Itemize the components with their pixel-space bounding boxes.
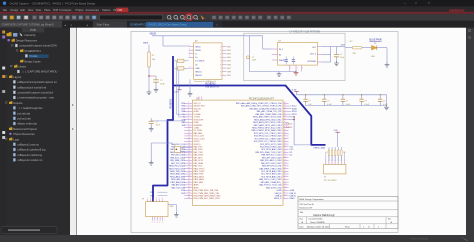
svg-text:VDD_IN: VDD_IN xyxy=(194,108,202,110)
resistor R3 pullup xyxy=(328,147,330,150)
svg-text:RC9_RP25_OC1_CTED7_CN21: RC9_RP25_OC1_CTED7_CN21 xyxy=(254,133,282,135)
ground xyxy=(154,88,159,93)
svg-text:Library: Library xyxy=(18,65,27,69)
svg-text:42: 42 xyxy=(284,107,286,109)
svg-text:RG9_PWM_BLU_TMR4_CN11: RG9_PWM_BLU_TMR4_CN11 xyxy=(194,198,220,200)
svg-text:RA8_OSCO_CLKO_CN29: RA8_OSCO_CLKO_CN29 xyxy=(259,178,281,181)
svg-text:D+: D+ xyxy=(183,114,185,116)
pin stub xyxy=(189,67,194,69)
svg-text:RB3_AN5_C1INA_RP3_: RB3_AN5_C1INA_RP3_ xyxy=(261,181,283,184)
svg-text:40: 40 xyxy=(284,113,286,115)
ground xyxy=(147,90,152,95)
svg-text:pcb tab.dat: pcb tab.dat xyxy=(17,111,30,115)
svg-text:SOSCI: SOSCI xyxy=(194,141,200,143)
svg-text:Start Page: Start Page xyxy=(97,23,110,27)
svg-text:30: 30 xyxy=(188,181,190,183)
svg-text:RB13_AN13_RP13_SDO2_CN13: RB13_AN13_RP13_SDO2_CN13 xyxy=(253,121,281,124)
svg-text:RP24: RP24 xyxy=(292,111,297,113)
svg-text:RA4_SOSCO_T1CK_CN0: RA4_SOSCO_T1CK_CN0 xyxy=(259,184,281,187)
svg-text:Document Number: Document Number xyxy=(309,218,324,221)
svg-text:nUSB: nUSB xyxy=(277,190,283,192)
svg-text:PGED3: PGED3 xyxy=(286,127,292,129)
svg-text:SI Analysis: SI Analysis xyxy=(59,9,72,12)
resistor R7 pullup xyxy=(340,147,342,150)
wire crystal to OSC2 xyxy=(181,150,193,152)
svg-text:3.3V: 3.3V xyxy=(334,130,339,132)
svg-text:cs8layout1\composite8 capture: cs8layout1\composite8 capture tut xyxy=(17,80,57,84)
svg-text:3: 3 xyxy=(220,54,221,56)
pin stub xyxy=(189,56,194,58)
svg-text:composite8 capture tutorial DS: composite8 capture tutorial DSN xyxy=(19,44,56,48)
junction xyxy=(293,119,294,120)
ground xyxy=(188,92,193,97)
svg-text:Hierarchy: Hierarchy xyxy=(25,33,37,37)
svg-text:27: 27 xyxy=(188,173,190,175)
svg-text:RB11_PGD2: RB11_PGD2 xyxy=(194,171,205,173)
pin stub U2 left xyxy=(272,48,278,50)
svg-text:Capture Walkthrough: Capture Walkthrough xyxy=(313,214,335,217)
svg-text:C?: C? xyxy=(252,57,254,59)
pin stub U2 right xyxy=(317,61,322,63)
svg-text:PCB: PCB xyxy=(30,28,36,32)
wire right end down xyxy=(386,95,388,106)
svg-text:View: View xyxy=(28,9,34,12)
gray box LT VREGOR USB PATTERN xyxy=(244,33,345,80)
svg-text:cs8layout\pcb tutorial.brd: cs8layout\pcb tutorial.brd xyxy=(17,85,46,89)
svg-text:44: 44 xyxy=(284,102,286,104)
svg-text:7: 7 xyxy=(220,68,221,70)
svg-text:MH5: MH5 xyxy=(227,61,231,63)
svg-text:RB13_AN11: RB13_AN11 xyxy=(194,175,204,178)
svg-text:RB11_PGD2_LED2: RB11_PGD2_LED2 xyxy=(169,168,185,170)
svg-text:USB MICRO B: USB MICRO B xyxy=(205,87,219,89)
svg-text:3.3V: 3.3V xyxy=(292,89,297,91)
svg-text:3: 3 xyxy=(189,52,190,54)
svg-text:PAGE1: PAGE1 xyxy=(29,54,38,58)
svg-text:Edit: Edit xyxy=(21,9,26,12)
capacitor C8 xyxy=(379,95,381,99)
J4 pin stub bottom xyxy=(159,217,161,221)
title block xyxy=(298,196,398,228)
wire to crystal xyxy=(151,142,172,144)
ground xyxy=(149,161,154,166)
svg-text:Design Cache: Design Cache xyxy=(24,59,41,63)
svg-text:Size: Size xyxy=(300,219,303,221)
capacitor C10 plate xyxy=(149,120,154,122)
svg-text:19: 19 xyxy=(284,170,286,172)
svg-text:RA9_AN7_LED5: RA9_AN7_LED5 xyxy=(172,184,186,187)
svg-text:RB12_AN12_RP12_nSS2_CN14: RB12_AN12_RP12_nSS2_CN14 xyxy=(254,124,282,127)
svg-text:2: 2 xyxy=(220,50,221,52)
svg-text:C?: C? xyxy=(308,101,310,103)
svg-text:Rochester, NY: Rochester, NY xyxy=(300,206,314,209)
svg-text:4: 4 xyxy=(189,56,190,58)
svg-text:Design Resources: Design Resources xyxy=(16,39,38,43)
svg-text:RB8_RP8_SCL1_CN22: RB8_RP8_SCL1_CN22 xyxy=(261,155,281,157)
pin stub U2 right xyxy=(317,54,322,56)
ground xyxy=(384,105,389,110)
svg-text:RB10_PGED2_RP10_SDA2_CN16: RB10_PGED2_RP10_SDA2_CN16 xyxy=(252,129,282,132)
svg-text:8: 8 xyxy=(220,71,221,73)
svg-text:RB1_AN3_C1INC_RP1_CTED12_PGEC3: RB1_AN3_C1INC_RP1_CTED12_PGEC3_CN3 xyxy=(241,105,281,108)
svg-text:USB_ID: USB_ID xyxy=(290,193,297,195)
svg-text:nMCLR_RST: nMCLR_RST xyxy=(194,106,206,108)
pin stub xyxy=(189,46,194,48)
svg-text:MH6: MH6 xyxy=(227,64,231,66)
svg-text:RB8_SCL1: RB8_SCL1 xyxy=(194,160,203,162)
svg-text:22: 22 xyxy=(188,159,190,161)
svg-text:27: 27 xyxy=(284,148,286,150)
svg-text:RC5_RP21_U1TX_CN26: RC5_RP21_U1TX_CN26 xyxy=(260,144,281,146)
svg-text:10uF: 10uF xyxy=(160,84,165,86)
svg-text:26: 26 xyxy=(284,151,286,153)
wire VBUS drop inside box xyxy=(249,36,251,72)
J4 pin stub bottom xyxy=(162,217,164,221)
svg-text:AVDD: AVDD xyxy=(194,186,200,189)
svg-text:RB13_AN11_SW1: RB13_AN11_SW1 xyxy=(170,173,185,176)
svg-text:RC_RXD1: RC_RXD1 xyxy=(194,130,203,132)
svg-text:□: □ xyxy=(415,1,417,5)
svg-text:2: 2 xyxy=(189,48,190,50)
wire to header pin xyxy=(343,152,345,162)
wire R1 chain xyxy=(148,45,150,91)
resistor R1 10k xyxy=(148,52,150,67)
svg-text:SOSCO: SOSCO xyxy=(194,144,201,146)
capacitor plate xyxy=(285,59,288,61)
svg-text:LT VREGOR / USB PATTERN: LT VREGOR / USB PATTERN xyxy=(290,31,321,34)
wire to header pin xyxy=(337,152,339,162)
svg-text:nUSB: nUSB xyxy=(194,111,200,113)
svg-text:RB5_RP5_PGD1_CN27: RB5_RP5_PGD1_CN27 xyxy=(261,163,282,165)
svg-text:2: 2 xyxy=(328,160,329,162)
svg-text:×: × xyxy=(71,23,73,27)
svg-text:RB7_RP7_INT0_CN23: RB7_RP7_INT0_CN23 xyxy=(262,157,281,159)
svg-text:7: 7 xyxy=(344,160,345,162)
svg-text:Rev: Rev xyxy=(388,219,391,221)
svg-text:RB10_PGC2: RB10_PGC2 xyxy=(194,168,205,170)
svg-text:RA7_TDO_CN20: RA7_TDO_CN20 xyxy=(171,162,185,165)
MCU top pin stub xyxy=(198,97,200,101)
svg-text:–: – xyxy=(404,1,406,5)
svg-text:24: 24 xyxy=(188,165,190,167)
svg-text:1: 1 xyxy=(220,46,221,48)
capacitor C7 xyxy=(361,95,363,99)
wire D- to MCU xyxy=(177,61,186,114)
svg-text:VBUS: VBUS xyxy=(143,42,149,44)
svg-text:PIC24FJ128GA204-I/PT: PIC24FJ128GA204-I/PT xyxy=(249,97,274,100)
svg-text:RA10_TMS_CN28: RA10_TMS_CN28 xyxy=(170,170,185,173)
svg-text:Tools: Tools xyxy=(35,9,42,12)
svg-text:File: File xyxy=(3,9,8,12)
svg-text:Design: Design xyxy=(10,9,18,12)
wire VBUS horizontal xyxy=(152,35,263,37)
wire J1 GND down xyxy=(189,79,191,92)
svg-text:PGEC3: PGEC3 xyxy=(286,123,292,125)
svg-text:1: 1 xyxy=(152,222,153,224)
svg-text:6: 6 xyxy=(162,198,163,200)
svg-text:RC2_RP18_AN8_CN16: RC2_RP18_AN8_CN16 xyxy=(261,170,281,173)
svg-text:RG6_PWM_BLKC_INB_CN8: RG6_PWM_BLKC_INB_CN8 xyxy=(194,190,219,192)
svg-text:OUT_2: OUT_2 xyxy=(310,54,316,56)
svg-text:11: 11 xyxy=(188,129,190,131)
svg-text:28: 28 xyxy=(188,175,190,177)
capacitor C3 plate xyxy=(334,54,339,56)
svg-text:RA9_VREF_CTMU_CN30: RA9_VREF_CTMU_CN30 xyxy=(259,167,281,170)
svg-text:12: 12 xyxy=(284,189,286,191)
svg-text:Outputs: Outputs xyxy=(13,101,23,105)
svg-text:14: 14 xyxy=(284,184,286,186)
svg-text:allegro netlist.dat: allegro netlist.dat xyxy=(17,122,37,126)
J4 pin stub top xyxy=(156,199,158,202)
svg-text:PIC IO PMOD: PIC IO PMOD xyxy=(324,180,337,182)
svg-text:RC7_RP23_IC1_CTED9_CN19: RC7_RP23_IC1_CTED9_CN19 xyxy=(255,138,282,140)
svg-text:MH2: MH2 xyxy=(227,50,231,52)
svg-text:pcb pcb.dat: pcb pcb.dat xyxy=(17,117,31,121)
svg-text:RB5_PGD: RB5_PGD xyxy=(194,149,203,151)
svg-text:RC3_RP19_AN6_CN28: RC3_RP19_AN6_CN28 xyxy=(261,148,281,151)
svg-text:D+/USB: D+/USB xyxy=(194,114,202,116)
svg-text:RA2_TXD2: RA2_TXD2 xyxy=(194,151,204,154)
svg-text:16: 16 xyxy=(188,143,190,145)
svg-text:OC1: OC1 xyxy=(290,147,294,149)
regulator U2 xyxy=(278,42,318,65)
svg-text:LED: LED xyxy=(371,56,375,58)
stub PGD xyxy=(158,191,168,193)
wire gnd rail of cap row xyxy=(306,105,387,107)
svg-text:Y?: Y? xyxy=(174,144,176,146)
svg-text:Accessories: Accessories xyxy=(86,9,100,12)
svg-text:9: 9 xyxy=(220,75,221,77)
wire to R2 xyxy=(345,47,352,49)
J4 pin stub top xyxy=(158,199,160,202)
svg-text:MH4: MH4 xyxy=(227,57,231,59)
svg-text:SOSC/CPS: SOSC/CPS xyxy=(194,119,205,121)
svg-text:RA0_AN0_C2INB_VREF_CN0: RA0_AN0_C2INB_VREF_CN0 xyxy=(256,113,282,116)
svg-text:29: 29 xyxy=(284,143,286,145)
svg-text:SCL2: SCL2 xyxy=(292,106,297,108)
svg-text:RG8_PWM_GRN_TMR3_CN10: RG8_PWM_GRN_TMR3_CN10 xyxy=(194,195,221,197)
resistor R4 pullup xyxy=(331,147,333,150)
svg-text:cs8layout1.gearbox8.log: cs8layout1.gearbox8.log xyxy=(17,148,46,152)
svg-text:COMPOSITE CAPTURE TUTORIAL.opj: COMPOSITE CAPTURE TUTORIAL.opj (Read-O xyxy=(2,23,55,26)
svg-text:22: 22 xyxy=(284,162,286,164)
svg-text:C?: C? xyxy=(327,101,329,103)
svg-text:RB15_AN15_REFO_SCK2_CN11: RB15_AN15_REFO_SCK2_CN11 xyxy=(253,116,282,119)
wire to C1 xyxy=(149,75,156,77)
svg-text:Place: Place xyxy=(44,9,51,12)
crystal Y1 xyxy=(175,146,181,152)
svg-text:20: 20 xyxy=(284,167,286,169)
svg-text:OC2: OC2 xyxy=(290,149,294,151)
svg-text:Bxxx CLKHBTA: Bxxx CLKHBTA xyxy=(311,221,326,224)
wire bus to FB2 xyxy=(173,67,177,69)
capacitor C5 xyxy=(323,95,325,99)
resistor R2 330 xyxy=(353,47,362,49)
svg-text:cs8layout1.netlink.log: cs8layout1.netlink.log xyxy=(17,153,42,157)
power symbol 5.0V xyxy=(178,89,182,91)
svg-text:5: 5 xyxy=(338,160,339,162)
svg-text:26: 26 xyxy=(188,170,190,172)
wire to header pin xyxy=(331,152,333,162)
svg-text:Connector for USB Micro B: Connector for USB Micro B xyxy=(194,80,216,83)
wire 3.3V rail xyxy=(297,94,387,96)
svg-text:×: × xyxy=(216,23,218,27)
svg-text:RB9_RP9_SDA1_T1CK_CN27: RB9_RP9_SDA1_T1CK_CN27 xyxy=(255,151,281,154)
svg-text:30: 30 xyxy=(284,140,286,142)
thick bus horizontal + diagonal to PMOD xyxy=(173,86,326,145)
wire to C3 xyxy=(336,47,338,55)
J4 pin stub top xyxy=(147,199,149,202)
svg-text:OSC2_CLKO: OSC2_CLKO xyxy=(194,138,206,140)
svg-text:5: 5 xyxy=(297,68,298,70)
svg-text:RA7_TDO: RA7_TDO xyxy=(194,165,203,168)
svg-text:31: 31 xyxy=(284,137,286,139)
header J5 PMOD xyxy=(324,165,346,174)
svg-text:GND: GND xyxy=(195,68,200,70)
svg-text:PMOD_SDA: PMOD_SDA xyxy=(314,147,326,150)
svg-text:USB_A: USB_A xyxy=(275,194,282,197)
svg-text:RB7_INT0_CN23: RB7_INT0_CN23 xyxy=(171,155,185,157)
svg-text:14: 14 xyxy=(188,137,190,139)
svg-text:RHS Design Corporation: RHS Design Corporation xyxy=(300,198,325,201)
svg-text:RB14_AN10_SW2: RB14_AN10_SW2 xyxy=(170,175,185,178)
svg-text:17: 17 xyxy=(188,146,190,148)
svg-text:10: 10 xyxy=(188,126,190,128)
svg-text:..\..\..\CAPTURE WALKTHROU: ..\..\..\CAPTURE WALKTHROU xyxy=(21,70,57,74)
svg-text:3.3V: 3.3V xyxy=(341,45,346,47)
svg-text:C?: C? xyxy=(340,54,342,56)
svg-text:0 items selected: 0 items selected xyxy=(410,237,429,240)
svg-text:VUSB3V3: VUSB3V3 xyxy=(170,98,172,109)
svg-text:25: 25 xyxy=(284,154,286,156)
capacitor C6 xyxy=(342,95,344,99)
capacitor plate xyxy=(292,59,295,61)
svg-text:RB10_PGC2_LED1: RB10_PGC2_LED1 xyxy=(169,166,185,168)
svg-text:29: 29 xyxy=(188,178,190,180)
wire D+ to MCU xyxy=(179,68,186,117)
svg-text:D-: D- xyxy=(195,54,197,56)
svg-text:34: 34 xyxy=(188,192,190,194)
svg-text:RC8_RP24_OC2_CTED8_CN20: RC8_RP24_OC2_CTED8_CN20 xyxy=(254,136,282,138)
svg-text:33: 33 xyxy=(284,132,286,134)
svg-text:Date:: Date: xyxy=(300,226,305,229)
wire 3.3V out xyxy=(331,46,345,48)
pin stub U2 left xyxy=(272,54,278,56)
svg-text:21: 21 xyxy=(284,165,286,167)
J4 pin stub top xyxy=(153,199,155,202)
wire to U2 IN xyxy=(262,36,264,49)
svg-text:RA3_SOSCI_CN2: RA3_SOSCI_CN2 xyxy=(266,186,281,189)
pin stub U2 bottom xyxy=(289,65,291,71)
svg-text:MH9: MH9 xyxy=(227,75,231,77)
svg-text:RB14_AN10: RB14_AN10 xyxy=(194,178,205,181)
wire VCAP to MCU xyxy=(151,120,185,122)
svg-text:SDA2: SDA2 xyxy=(292,107,297,110)
header pin stub xyxy=(340,162,342,165)
wire to header pin xyxy=(334,152,336,162)
svg-text:23: 23 xyxy=(284,159,286,161)
svg-text:1: 1 xyxy=(189,45,190,47)
svg-text:43: 43 xyxy=(284,105,286,107)
svg-text:RB14_AN14_RP14_SDI2_CN12: RB14_AN14_RP14_SDI2_CN12 xyxy=(254,118,281,121)
svg-text:32: 32 xyxy=(188,186,190,188)
svg-text:MH8: MH8 xyxy=(227,71,231,73)
svg-text:×: × xyxy=(428,1,430,5)
ground xyxy=(277,72,282,77)
svg-text:PSpice Resources: PSpice Resources xyxy=(13,132,35,136)
svg-text:36: 36 xyxy=(188,197,190,199)
svg-text:..\..\..\walkthrough.dsn: ..\..\..\walkthrough.dsn xyxy=(17,106,43,110)
ferrite bead FB1 xyxy=(177,59,184,62)
svg-text:cs8layout1.relation.txt: cs8layout1.relation.txt xyxy=(17,158,42,162)
svg-text:RP23: RP23 xyxy=(292,114,297,116)
connector J1 USB micro-B xyxy=(194,43,222,79)
svg-text:RB6_RP6_ASCL1_CN24: RB6_RP6_ASCL1_CN24 xyxy=(260,159,281,162)
svg-text:RB0_AN2_C1INB_RP0_PGED3_CN2: RB0_AN2_C1INB_RP0_PGED3_CN2 xyxy=(249,107,281,110)
svg-text:33: 33 xyxy=(188,189,190,191)
svg-text:VBUS: VBUS xyxy=(150,33,157,36)
svg-text:15: 15 xyxy=(284,181,286,183)
capacitor C1 plate xyxy=(153,79,159,81)
svg-text:RB2_nAlert_AN4_PullUp_C1IND_RP: RB2_nAlert_AN4_PullUp_C1IND_RP2_CTED13_C… xyxy=(236,102,282,105)
svg-text:25: 25 xyxy=(188,167,190,169)
wire vertical PGC/PGD xyxy=(293,117,295,145)
svg-text:10: 10 xyxy=(284,194,286,196)
svg-text:32: 32 xyxy=(284,135,286,137)
svg-text:35: 35 xyxy=(188,194,190,196)
svg-text:24: 24 xyxy=(284,156,286,158)
header pin stub xyxy=(325,162,327,165)
svg-text:RA4_T1CK_CN0: RA4_T1CK_CN0 xyxy=(171,186,185,189)
svg-text:MH3: MH3 xyxy=(227,54,231,56)
ferrite bead FB2 xyxy=(177,67,184,70)
header pin stub xyxy=(334,162,336,165)
svg-text:cadence: cadence xyxy=(449,7,465,12)
svg-text:SHDN: SHDN xyxy=(279,60,285,62)
svg-text:PGC: PGC xyxy=(150,195,155,197)
MCU U1 PIC24FJ128GA204 xyxy=(192,100,283,205)
svg-text:18: 18 xyxy=(284,173,286,175)
svg-text:220 Test Part St: 220 Test Part St xyxy=(300,203,315,206)
svg-text:RA3_RXD2: RA3_RXD2 xyxy=(194,154,204,157)
svg-text:4: 4 xyxy=(156,198,157,200)
svg-text:IC2: IC2 xyxy=(290,155,293,157)
ground xyxy=(174,213,179,218)
svg-text:USB_A: USB_A xyxy=(290,194,297,197)
schematic page border xyxy=(131,32,398,233)
svg-text:6: 6 xyxy=(220,64,221,66)
svg-text:C1IND: C1IND xyxy=(194,127,200,129)
svg-text:ISM: ISM xyxy=(118,8,124,12)
stub PGC xyxy=(158,195,168,197)
wire to header pin xyxy=(328,152,330,162)
svg-text:20: 20 xyxy=(188,154,190,156)
wire crystal to OSC1 xyxy=(181,147,193,149)
svg-text:C?: C? xyxy=(346,101,348,103)
wire 3.3V to pullups xyxy=(337,132,339,147)
svg-text:4: 4 xyxy=(220,57,221,59)
svg-text:39: 39 xyxy=(284,116,286,118)
svg-text:R?: R? xyxy=(326,152,328,154)
svg-text:SHLD1: SHLD1 xyxy=(195,71,202,73)
svg-text:RB8_SCL1_CN22: RB8_SCL1_CN22 xyxy=(170,157,185,159)
wire gnd rail xyxy=(250,71,296,73)
svg-text:13: 13 xyxy=(284,186,286,188)
svg-text:13: 13 xyxy=(188,135,190,137)
svg-text:IN_1: IN_1 xyxy=(279,49,283,51)
svg-text:OrCAD Capture - - [SCHEMATIC1: OrCAD Capture - - [SCHEMATIC1 : PAGE1 ] … xyxy=(10,1,96,5)
header pin stub xyxy=(328,162,330,165)
